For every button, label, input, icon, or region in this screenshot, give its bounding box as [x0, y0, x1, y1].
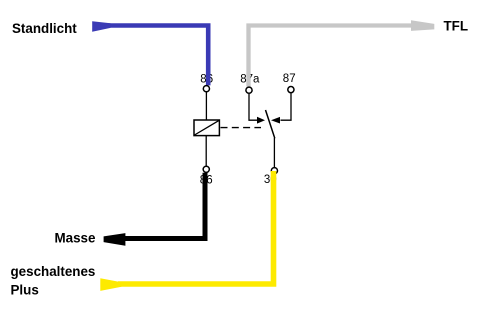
terminal node 30: [271, 168, 277, 174]
wire: 87 contact lead: [281, 93, 292, 120]
wire: coil bottom lead (relay box to 85): [205, 136, 207, 167]
contact arrow 87 (points left): [271, 117, 280, 124]
arrowhead blue (points left): [92, 21, 110, 31]
wire: blade to pin 30: [273, 138, 275, 167]
wire: black Masse from pin 85: [117, 173, 205, 239]
arrowhead yellow (points left): [100, 278, 121, 291]
wire: gray TFL from pin 87a: [249, 26, 413, 87]
wire: blue Standlicht to pin 86: [104, 26, 208, 86]
relay coil K1: [194, 120, 219, 136]
terminal node 86: [203, 86, 209, 92]
dashed mechanical link (coil to contact): [221, 127, 262, 129]
terminal node 87: [288, 87, 294, 93]
svg-text:Masse: Masse: [55, 231, 96, 246]
svg-text:geschaltenes: geschaltenes: [11, 264, 96, 279]
svg-text:TFL: TFL: [444, 19, 469, 34]
terminal node 87a: [246, 87, 252, 93]
wire: 87a contact lead: [249, 94, 259, 120]
switch blade (changeover contact): [266, 110, 275, 138]
svg-text:Standlicht: Standlicht: [12, 21, 77, 36]
svg-text:87: 87: [283, 73, 296, 85]
arrowhead gray (points right): [411, 20, 434, 31]
wire: coil top lead (86 to relay box): [205, 92, 207, 121]
svg-text:Plus: Plus: [11, 283, 39, 298]
arrowhead black (points left): [104, 233, 126, 246]
wire: yellow geschaltenes-Plus to pin 30: [118, 171, 274, 284]
contact arrow 87a (points right): [257, 117, 265, 124]
terminal node 85: [203, 166, 209, 172]
